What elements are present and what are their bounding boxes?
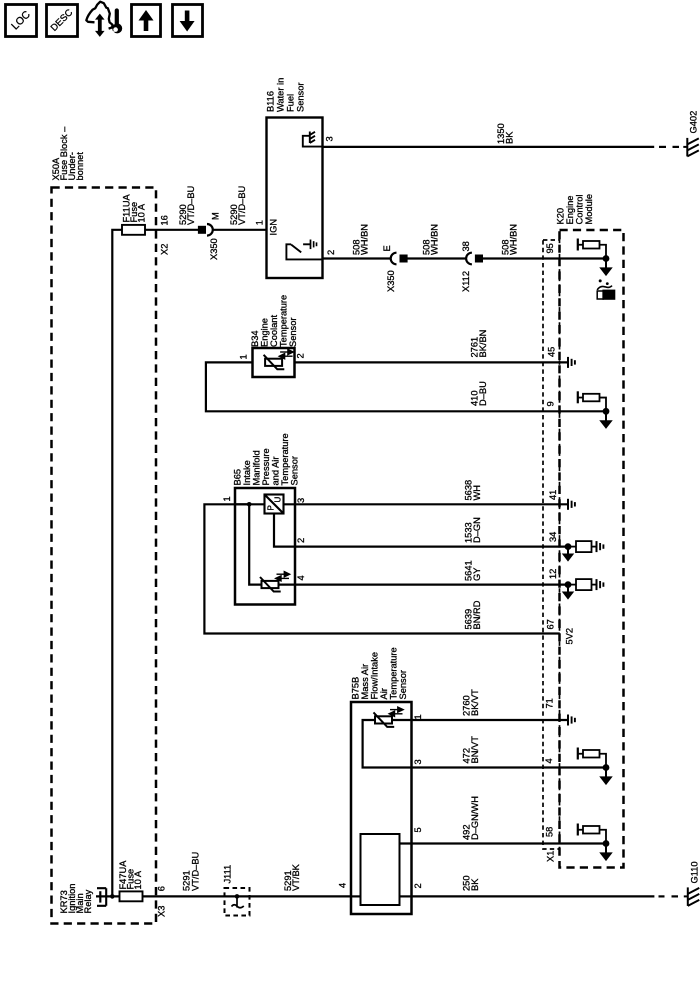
svg-text:and Air: and Air	[271, 457, 281, 486]
relay KR73 contact terminal	[99, 891, 101, 902]
svg-text:VT/D–BU: VT/D–BU	[186, 186, 196, 225]
svg-text:J111: J111	[223, 865, 233, 884]
svg-text:K20: K20	[556, 208, 566, 225]
toolbar button scroll-down	[173, 5, 203, 37]
svg-text:IGN: IGN	[269, 219, 279, 236]
toolbar icon part-locator (outline with double arrow and wrench)	[86, 2, 122, 37]
svg-text:Fuel: Fuel	[286, 94, 296, 112]
toolbar button DESC	[47, 5, 78, 37]
svg-text:34: 34	[548, 532, 558, 542]
toolbar button LOC	[6, 5, 37, 37]
toolbar button scroll-up	[132, 5, 161, 37]
svg-text:X112: X112	[461, 271, 471, 292]
svg-text:12: 12	[548, 569, 558, 579]
wire 5291 VT/D-BU fuse to J111	[143, 895, 352, 897]
svg-text:WH/BN: WH/BN	[509, 224, 519, 255]
svg-text:4: 4	[296, 575, 306, 580]
svg-text:71: 71	[545, 698, 555, 708]
svg-text:WH/BN: WH/BN	[430, 224, 440, 255]
svg-text:Coolant: Coolant	[269, 315, 279, 347]
svg-text:B34: B34	[250, 330, 260, 347]
K20 internal resistor to ground at pin 12	[564, 579, 603, 598]
svg-text:2: 2	[296, 353, 306, 358]
B65 internal wiring junction node	[247, 502, 252, 507]
svg-text:3: 3	[413, 759, 423, 764]
svg-text:B65: B65	[233, 469, 243, 486]
wire 5639 BN/RD B65 pin 1 loop to K20 pin 67 (5V2)	[204, 504, 559, 633]
svg-text:16: 16	[160, 215, 170, 225]
svg-text:9: 9	[546, 401, 556, 406]
wire 508 WH/BN X112 to K20 pin 95	[482, 257, 606, 259]
svg-text:BK/BN: BK/BN	[478, 330, 488, 358]
svg-text:bonnet: bonnet	[75, 152, 85, 181]
wire 5290 VT/D-BU fuse to X350	[145, 229, 199, 231]
K20 internal ground at pin 45	[568, 357, 575, 368]
wire 250 BK B75B pin 2 to G110	[412, 895, 655, 897]
K20 internal voltage supply resistor at pin 9	[578, 391, 611, 427]
wire 508 WH/BN B116 pin 2 to X350	[323, 257, 391, 259]
K20 internal resistor to ground at pin 34	[564, 541, 603, 560]
svg-text:Temperature: Temperature	[280, 433, 290, 485]
wire 1350 BK to G402	[323, 146, 655, 148]
svg-text:X350: X350	[386, 270, 396, 292]
wire B65 junction down to thermistor	[249, 504, 261, 584]
svg-text:GY: GY	[472, 568, 482, 581]
inline connector X350 pin M	[199, 224, 213, 236]
K20 internal device icon below pin 95 arrow	[597, 279, 614, 299]
svg-text:4: 4	[338, 883, 348, 888]
svg-text:VT/BK: VT/BK	[291, 863, 301, 891]
svg-text:D–GN: D–GN	[472, 517, 482, 543]
svg-text:Engine: Engine	[260, 318, 270, 347]
svg-text:Flow/Intake: Flow/Intake	[370, 652, 380, 700]
wire B75B thermistor left leg to pin 3	[363, 720, 412, 768]
fuse block X50A dashed box	[52, 188, 157, 924]
svg-text:4: 4	[544, 758, 554, 763]
svg-text:3: 3	[325, 136, 335, 141]
svg-text:D–GN/WH: D–GN/WH	[470, 796, 480, 840]
svg-text:M: M	[211, 212, 221, 220]
K20 internal voltage supply resistor at pin 95	[578, 239, 611, 275]
svg-text:WH/BN: WH/BN	[360, 224, 370, 255]
svg-text:6: 6	[157, 886, 167, 891]
B116 internal switch to ground	[286, 244, 322, 259]
svg-text:X3: X3	[157, 906, 167, 917]
wire 508 WH/BN X350 to X112	[406, 257, 466, 259]
svg-text:58: 58	[545, 827, 555, 837]
wire 410 D-BU B34 pin 1 loop to K20 pin 9	[206, 362, 606, 411]
svg-text:Manifold: Manifold	[252, 450, 262, 485]
wire 2760 BK/VT B75B pin 1 to K20 pin 71	[392, 719, 568, 721]
svg-text:BK: BK	[470, 878, 480, 891]
fuse F11UA	[122, 225, 145, 235]
ECM K20 dashed box	[560, 230, 624, 868]
svg-text:VT/D–BU: VT/D–BU	[191, 852, 201, 891]
svg-text:2: 2	[296, 538, 306, 543]
splice J111 symbol	[235, 894, 240, 899]
svg-text:95: 95	[545, 243, 555, 253]
svg-text:Water in: Water in	[276, 78, 286, 112]
junction trunk / relay row	[110, 894, 115, 899]
wire 5638 WH B65 pin 3 to K20 pin 41	[284, 503, 569, 505]
sensor B34 box	[253, 348, 295, 377]
wire 2761 BK/BN B34 pin 2 to K20 pin 45	[295, 361, 569, 363]
svg-text:45: 45	[547, 347, 557, 357]
splice J111 dashed box	[225, 888, 250, 916]
ground G402	[683, 138, 699, 157]
svg-text:Temperature: Temperature	[389, 647, 399, 699]
svg-text:Air: Air	[379, 688, 389, 699]
wire relay to fuse F47UA	[96, 895, 120, 897]
wire 472 BN/VT B75B pin 3 to K20 pin 4	[412, 766, 607, 768]
wire 492 D-GN/WH B75B pin 5 to K20 pin 58	[400, 842, 607, 844]
B34 internal thermistor	[264, 350, 293, 369]
svg-text:1: 1	[255, 220, 265, 225]
fuse F47UA	[120, 891, 143, 901]
svg-text:38: 38	[461, 241, 471, 251]
svg-text:G110: G110	[690, 861, 700, 883]
B75B internal thermistor	[374, 708, 403, 727]
svg-text:Sensor: Sensor	[290, 456, 300, 485]
inline connector X112 pin 38	[466, 253, 482, 265]
svg-text:Module: Module	[584, 194, 594, 225]
svg-text:1: 1	[222, 496, 232, 501]
svg-text:10 A: 10 A	[137, 203, 147, 222]
svg-text:Relay: Relay	[83, 889, 93, 913]
wire B65 pressure element to pin 2	[274, 514, 295, 547]
TOOLBAR	[6, 2, 203, 37]
B75B inner measuring element box	[361, 834, 400, 905]
svg-text:BK: BK	[505, 131, 515, 144]
ground G110	[684, 887, 700, 906]
K20 internal ground at pin 71	[568, 715, 575, 726]
svg-text:B75B: B75B	[351, 677, 361, 700]
svg-text:3: 3	[296, 498, 306, 503]
BOXES	[52, 118, 624, 924]
svg-text:X1: X1	[546, 851, 556, 862]
svg-text:Engine: Engine	[565, 196, 575, 225]
wire 1533 D-GN B65 pin 2 to K20 pin 34	[295, 545, 568, 547]
svg-text:P: P	[267, 505, 276, 510]
svg-text:10 A: 10 A	[133, 870, 143, 889]
svg-text:Pressure: Pressure	[261, 448, 271, 485]
svg-text:41: 41	[548, 490, 558, 500]
svg-text:Mass Air: Mass Air	[360, 664, 370, 700]
svg-text:VT/D–BU: VT/D–BU	[237, 186, 247, 225]
wire 5641 GY B65 pin 4 to K20 pin 12	[295, 583, 568, 585]
svg-text:BK/VT: BK/VT	[470, 689, 480, 716]
svg-text:1: 1	[413, 714, 423, 719]
B65 internal thermistor	[260, 572, 289, 591]
sensor B65 box	[235, 488, 295, 605]
relay KR73 contact bracket	[97, 888, 106, 906]
wire B75B pin 4 into inner element	[351, 895, 361, 897]
svg-text:Sensor: Sensor	[398, 670, 408, 699]
svg-text:Intake: Intake	[242, 460, 252, 485]
svg-text:Sensor: Sensor	[288, 318, 298, 347]
wire 5290 VT/D-BU X350 to B116 pin 1	[213, 229, 267, 231]
ECM connector X1 dashed strip	[543, 240, 560, 849]
svg-text:B116: B116	[266, 91, 276, 112]
sensor B116 box	[267, 118, 323, 279]
sensor B75B box	[351, 702, 412, 914]
svg-text:D–BU: D–BU	[478, 381, 488, 406]
K20 internal voltage supply resistor at pin 4	[578, 748, 611, 784]
svg-text:BN/RD: BN/RD	[472, 600, 482, 629]
svg-text:E: E	[382, 245, 392, 251]
B65 pressure transducer square	[265, 495, 284, 514]
wire trunk from fuse F11UA down to relay row	[112, 230, 122, 897]
wire B65 thermistor to pin 4	[279, 583, 296, 585]
svg-text:2: 2	[413, 883, 423, 888]
K20 internal ground at pin 41	[568, 499, 575, 510]
K20 internal voltage supply resistor at pin 58	[578, 824, 611, 860]
svg-text:Sensor: Sensor	[296, 83, 306, 112]
svg-text:BN/VT: BN/VT	[470, 736, 480, 764]
svg-text:2: 2	[326, 250, 336, 255]
svg-text:5: 5	[413, 827, 423, 832]
wire B65 pin 1 internal to pressure element	[235, 503, 265, 505]
svg-text:Control: Control	[575, 195, 585, 225]
svg-text:WH: WH	[472, 485, 482, 501]
svg-text:X2: X2	[160, 244, 170, 255]
B116 internal ground at pin 2	[303, 243, 310, 245]
svg-text:67: 67	[546, 619, 556, 629]
svg-text:U: U	[274, 497, 283, 503]
svg-text:5V2: 5V2	[565, 628, 575, 645]
wire B75B inner element to pin 2	[400, 895, 412, 897]
B116 internal sensing element at pin 3	[303, 132, 323, 147]
svg-text:1: 1	[239, 354, 249, 359]
svg-text:Temperature: Temperature	[279, 295, 289, 347]
svg-text:G402: G402	[689, 111, 699, 134]
inline connector X350 pin E	[391, 253, 407, 265]
svg-text:X350: X350	[209, 238, 219, 260]
